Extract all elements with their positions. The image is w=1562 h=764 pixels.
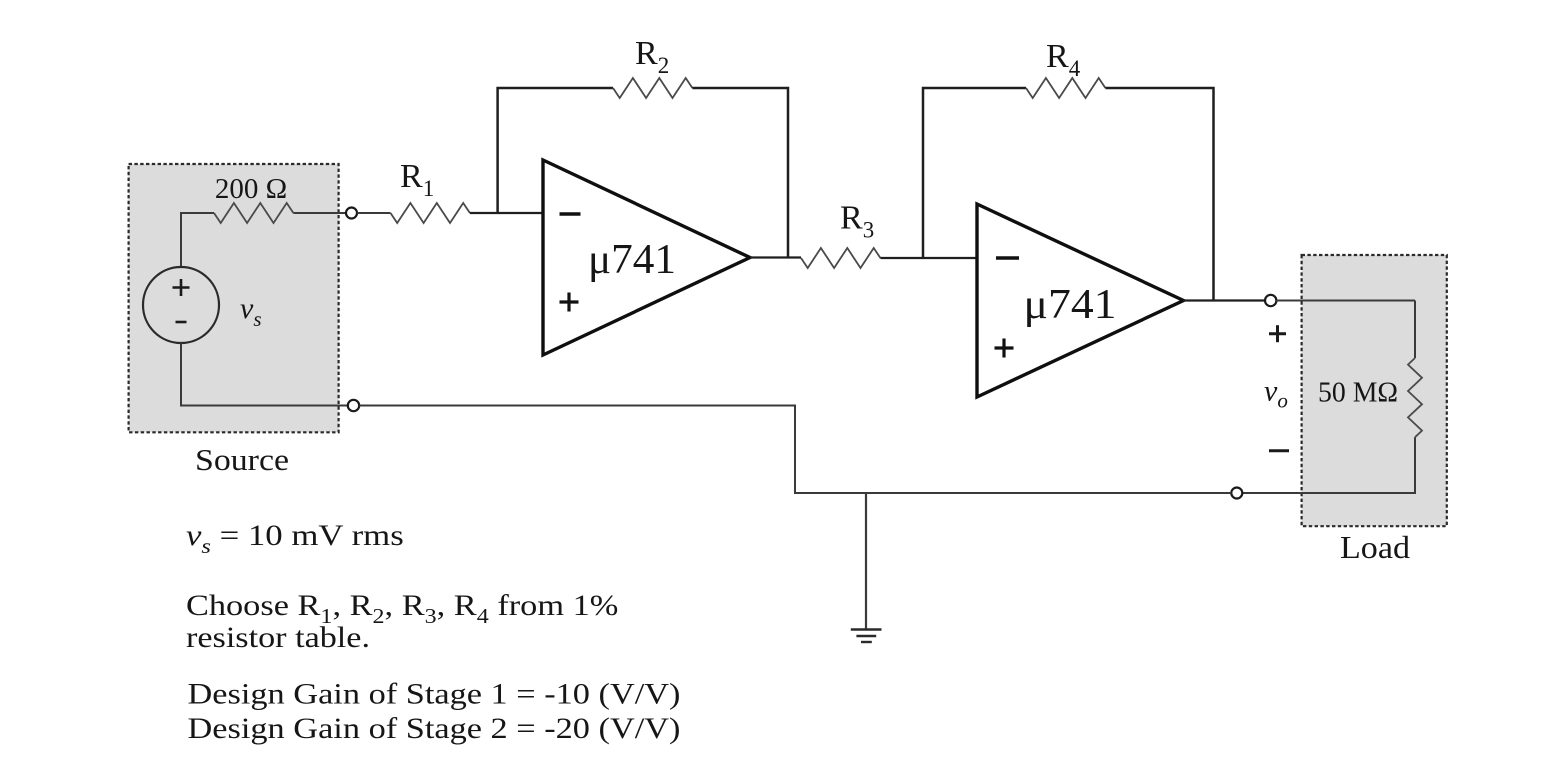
- minus sign in source: [176, 321, 187, 324]
- minus sign at load: [1269, 449, 1289, 452]
- wire: stage2 feedback right vertical: [1105, 88, 1213, 301]
- svg-text:Load: Load: [1340, 529, 1410, 565]
- svg-text:vs = 10 mV rms: vs = 10 mV rms: [186, 519, 404, 557]
- wire: load internal top vertical: [1414, 301, 1416, 359]
- op-amp U1 plus input sign: [560, 293, 579, 312]
- voltage source vs circle: [143, 267, 219, 343]
- svg-text:50 MΩ: 50 MΩ: [1318, 378, 1398, 409]
- terminal circle: source bottom: [348, 400, 359, 411]
- wire: load internal bottom vertical: [1243, 437, 1416, 493]
- wire: stage1 feedback left vertical: [498, 88, 613, 213]
- svg-text:Source: Source: [195, 442, 289, 477]
- plus sign at load: [1269, 325, 1286, 342]
- resistor 50 Mohm (vertical): [1408, 358, 1422, 437]
- wire: U2 output to load terminal: [1184, 299, 1266, 301]
- wire: R3 to op-amp U2 inverting input: [880, 257, 977, 259]
- op-amp U2 plus input sign: [995, 339, 1014, 358]
- svg-text:Design Gain of Stage 1 = -10 (: Design Gain of Stage 1 = -10 (V/V): [188, 678, 681, 711]
- plus sign in source: [173, 279, 190, 296]
- resistor R4: [1026, 78, 1105, 98]
- svg-text:μ741: μ741: [588, 237, 676, 283]
- wire: U1 output to R3: [750, 256, 801, 258]
- wire: stage2 feedback left vertical: [923, 88, 1026, 258]
- svg-text:resistor table.: resistor table.: [186, 621, 370, 654]
- wire: R1 to op-amp inverting input: [470, 212, 543, 214]
- ground symbol: [851, 630, 882, 643]
- op-amp U1 minus input sign: [560, 212, 581, 215]
- svg-text:200 Ω: 200 Ω: [215, 173, 287, 205]
- wire: ground stem: [865, 493, 867, 630]
- terminal circle: output top: [1265, 295, 1276, 306]
- op-amp U2 minus input sign: [996, 256, 1019, 259]
- wire: bottom rail from source to load: [359, 406, 1231, 494]
- svg-text:Design Gain of Stage 2 = -20 (: Design Gain of Stage 2 = -20 (V/V): [188, 712, 681, 745]
- svg-text:μ741: μ741: [1024, 282, 1117, 328]
- load box (shaded dashed region): [1302, 255, 1447, 526]
- terminal circle: source top: [346, 208, 357, 219]
- resistor 200 ohm: [214, 203, 293, 223]
- wire: stage1 feedback right vertical: [692, 88, 788, 258]
- resistor R3: [801, 248, 880, 268]
- wire: 200 ohm to top terminal: [293, 212, 346, 214]
- op-amp U1 triangle: [543, 160, 750, 355]
- wire: terminal to R1: [357, 212, 390, 214]
- wire: source internal bottom: [181, 343, 348, 406]
- resistor R2: [613, 78, 692, 98]
- wire: source internal top (to 200ohm resistor): [181, 213, 214, 268]
- terminal circle: load bottom: [1231, 488, 1242, 499]
- resistor R1: [391, 203, 470, 223]
- source box (shaded dashed region): [129, 164, 339, 432]
- op-amp U2 triangle: [977, 204, 1184, 397]
- wire: terminal into load box: [1276, 300, 1415, 302]
